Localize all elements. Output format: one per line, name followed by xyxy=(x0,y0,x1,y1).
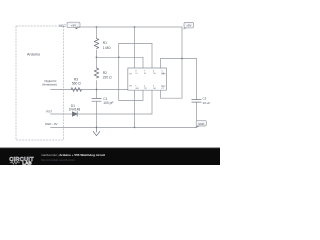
svg-text:+5V: +5V xyxy=(186,24,191,28)
wire VCC top rail xyxy=(77,26,182,28)
wire DIS row xyxy=(97,56,144,58)
diode D1 xyxy=(72,112,77,117)
resistor R3 xyxy=(71,88,82,92)
svg-text:(Heartbeat): (Heartbeat) xyxy=(42,82,57,86)
svg-text:R1: R1 xyxy=(103,41,107,45)
timer U1 LM555 box xyxy=(128,68,167,90)
wire VCC rail right drop (to +5V loop) xyxy=(181,27,183,98)
555 pin labels xyxy=(129,71,166,90)
svg-text:RST: RST xyxy=(46,109,52,113)
svg-text:mattbornski | Arduino + 555 Wa: mattbornski | Arduino + 555 Watchdog cir… xyxy=(41,153,105,157)
555 pin OUT bottom wire xyxy=(151,90,153,114)
junction DigitalIO/C1 top xyxy=(96,89,98,91)
svg-text:R2: R2 xyxy=(103,71,107,75)
svg-text:100 pF: 100 pF xyxy=(103,101,113,105)
capacitor C3 xyxy=(196,59,198,128)
junction GND rail / 555 GND pin xyxy=(134,127,136,129)
svg-text:GND - 0V: GND - 0V xyxy=(45,122,58,126)
capacitor C1 xyxy=(92,99,101,102)
resistor R1 xyxy=(96,27,98,57)
555 pin CTL bottom wire xyxy=(160,90,162,98)
node VCC +5V flag xyxy=(59,22,80,29)
junction rail/R1 xyxy=(96,26,98,28)
svg-text:GND: GND xyxy=(198,122,204,126)
Arduino module dashed box xyxy=(16,26,64,140)
svg-text:VCC: VCC xyxy=(59,24,67,28)
wire THR row xyxy=(119,42,152,44)
node flag +5V top right xyxy=(182,23,193,30)
555 pin V+ top wire xyxy=(134,27,136,68)
junction rail/555 V+ xyxy=(134,26,136,28)
junction GND/ground symbol xyxy=(96,127,98,129)
svg-text:1N4148: 1N4148 xyxy=(69,107,81,111)
wire Digital IO row xyxy=(51,89,128,91)
junction R1-R2 xyxy=(96,56,98,58)
wire CTL bottom loop xyxy=(161,97,183,99)
555 pin RST top wire xyxy=(160,59,162,69)
junction VCC drop / RST row xyxy=(181,58,183,60)
ground xyxy=(93,127,100,135)
555 pin THR top wire xyxy=(151,43,153,68)
svg-text:http://circuitlab.com/c6nz24d: http://circuitlab.com/c6nz24d xyxy=(41,158,75,162)
resistor R2 xyxy=(96,57,98,98)
svg-text:Arduino: Arduino xyxy=(27,53,40,57)
svg-text:+5V: +5V xyxy=(71,23,76,27)
junction DIS row / left column xyxy=(118,56,120,58)
555 pin GND bottom wire xyxy=(134,90,136,127)
wire RST-VCC row xyxy=(161,58,197,60)
svg-text:LAB: LAB xyxy=(22,161,32,166)
CircuitLab logo xyxy=(9,157,34,165)
footer bar xyxy=(0,148,220,165)
svg-text:220 Ω: 220 Ω xyxy=(103,76,112,80)
svg-text:560 Ω: 560 Ω xyxy=(72,81,81,85)
svg-text:1 MΩ: 1 MΩ xyxy=(103,46,111,50)
wire TRG return row xyxy=(119,99,143,101)
555 pin TRG bottom wire xyxy=(142,90,144,100)
555 pin DIS top wire xyxy=(142,57,144,68)
wire GND bottom rail xyxy=(51,126,197,128)
wire left feedback column xyxy=(118,43,120,100)
node flag GND bottom right xyxy=(195,121,207,128)
svg-text:10 uF: 10 uF xyxy=(203,101,211,105)
wire RST row xyxy=(51,113,153,115)
